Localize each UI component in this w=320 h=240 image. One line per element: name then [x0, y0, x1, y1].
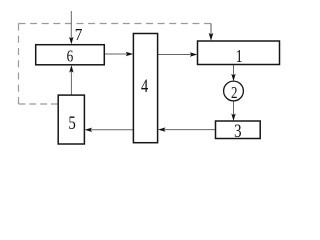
svg-text:7: 7: [75, 26, 83, 44]
svg-text:1: 1: [236, 48, 243, 67]
svg-text:3: 3: [234, 120, 241, 141]
svg-text:2: 2: [231, 85, 237, 103]
svg-text:5: 5: [68, 112, 75, 133]
svg-text:6: 6: [67, 47, 74, 66]
svg-text:4: 4: [141, 75, 149, 96]
